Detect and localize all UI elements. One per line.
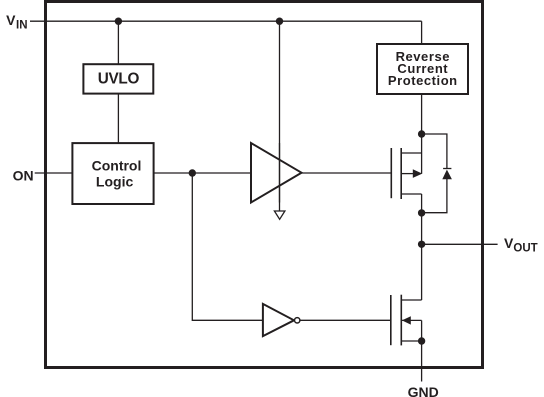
svg-text:IN: IN [16,20,28,32]
svg-text:GND: GND [408,384,439,397]
svg-text:Control: Control [92,157,142,173]
svg-text:V: V [6,12,16,28]
svg-text:UVLO: UVLO [98,71,140,88]
svg-text:OUT: OUT [513,243,537,255]
svg-text:Logic: Logic [96,173,134,189]
svg-text:Protection: Protection [388,73,458,88]
svg-text:ON: ON [13,168,34,184]
